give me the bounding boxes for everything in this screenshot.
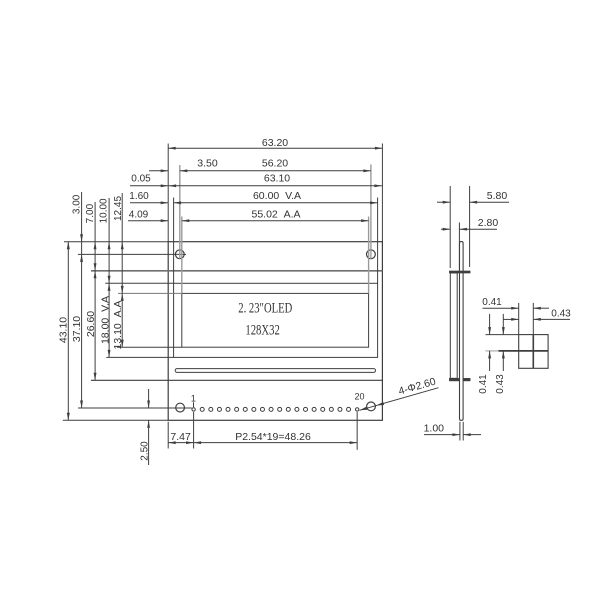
svg-text:1: 1 — [191, 393, 196, 403]
svg-text:5.80: 5.80 — [487, 190, 508, 202]
svg-text:0.05: 0.05 — [131, 174, 151, 185]
centerline through bottom-left hole — [78, 407, 192, 409]
side view top polarizer cap — [449, 271, 470, 273]
dimension 0.43 cell pitch — [503, 318, 519, 320]
svg-text:43.10: 43.10 — [58, 317, 70, 343]
svg-text:60.00 V.A: 60.00 V.A — [253, 190, 301, 202]
dimension 0.41 cell height line — [489, 314, 491, 335]
pixel detail top edge extension left — [486, 334, 519, 336]
extension line A.A right above — [368, 217, 370, 294]
svg-text:63.20: 63.20 — [262, 137, 288, 149]
svg-text:55.02 A.A: 55.02 A.A — [251, 209, 300, 221]
svg-text:128X32: 128X32 — [245, 323, 280, 339]
extension line PCB right edge above — [381, 144, 383, 242]
extension PCB top edge left — [64, 241, 168, 243]
extension pin 20 below — [356, 412, 358, 450]
svg-text:4.09: 4.09 — [129, 210, 149, 221]
dimension 3.50 hole offset — [149, 170, 168, 172]
pin 1 leader tick — [193, 402, 195, 407]
dimension 0.43 cell vertical pitch line — [502, 314, 504, 335]
glass top edge (with left extension) — [91, 270, 382, 272]
mounting hole bottom-left — [176, 403, 185, 412]
viewing area V.A rectangle 60.00 x 18.00 — [174, 283, 378, 357]
svg-text:0.43: 0.43 — [551, 309, 571, 320]
svg-text:18.00 V.A: 18.00 V.A — [99, 296, 111, 344]
svg-text:12.45: 12.45 — [113, 196, 124, 221]
svg-text:2. 23″OLED: 2. 23″OLED — [238, 301, 292, 317]
dimension 1.60 V.A offset — [130, 202, 168, 204]
extension above cell left — [518, 303, 520, 335]
dimension 3.00 / 37.10 vertical line — [81, 192, 83, 408]
svg-text:2.50: 2.50 — [139, 441, 150, 461]
extension 5.80 right — [469, 186, 471, 267]
svg-text:10.00: 10.00 — [99, 198, 110, 223]
pixel detail horizontal divider — [499, 350, 549, 352]
svg-text:P2.54*19=48.26: P2.54*19=48.26 — [235, 431, 311, 443]
svg-text:2.80: 2.80 — [478, 217, 499, 229]
dimension 60.00 V.A width — [174, 202, 378, 204]
pixel detail horizontal divider thin extension — [486, 350, 499, 352]
extension line A.A left above — [181, 217, 183, 294]
svg-text:3.00: 3.00 — [72, 194, 83, 214]
extension 1.00 right — [462, 422, 464, 441]
svg-text:1.60: 1.60 — [129, 191, 149, 202]
dimension 2.80 glass+pcb thickness — [441, 228, 450, 230]
centerline through top-right hole / 56.20 extension — [370, 165, 372, 259]
pixel detail vertical divider — [532, 335, 534, 369]
dimension 10.00 / 18.00 V.A vertical line — [108, 198, 110, 357]
active area A.A rectangle 55.02 x 13.10 — [182, 293, 369, 347]
extension line V.A right above — [377, 198, 379, 284]
side view PCB bar — [460, 242, 464, 421]
svg-text:0.43: 0.43 — [495, 374, 506, 394]
dimension 55.02 A.A width — [182, 220, 369, 222]
svg-text:13.10 A.A: 13.10 A.A — [112, 300, 124, 349]
V.A bottom edge left extension — [106, 356, 173, 358]
mounting hole top-right — [367, 250, 376, 259]
extension above cell divider — [532, 303, 534, 335]
extension line V.A left above — [173, 198, 175, 284]
svg-text:37.10: 37.10 — [71, 316, 83, 342]
pixel detail 2x2 cell square — [519, 335, 548, 369]
extension PCB bottom edge left — [63, 419, 168, 421]
V.A top edge left extension — [105, 282, 173, 284]
svg-text:7.00: 7.00 — [85, 203, 96, 223]
pin row: 20 connector pins — [192, 408, 195, 411]
extension 1.00 left — [459, 422, 461, 441]
extension line left hole center vertical — [179, 165, 181, 259]
dimension P2.54*19=48.26 pin pitch — [194, 442, 358, 444]
A.A top edge left extension — [118, 292, 182, 294]
dimension 12.45 / 13.10 A.A vertical line — [121, 193, 123, 347]
extension PCB left edge below — [167, 422, 169, 449]
dimension 56.20 hole to hole — [180, 170, 371, 172]
svg-text:56.20: 56.20 — [262, 158, 288, 170]
dimension 7.00 / 26.60 vertical line — [94, 202, 96, 380]
extension 2.80 right — [458, 223, 460, 272]
svg-text:3.50: 3.50 — [197, 158, 218, 170]
svg-text:0.41: 0.41 — [482, 297, 502, 308]
front view: PCB outline 63.20 x 43.10 — [168, 242, 382, 421]
mounting hole top-left — [175, 250, 184, 259]
dimension 1.00 pcb thickness — [424, 434, 460, 436]
leader 4-phi2.60 mounting holes — [360, 388, 439, 411]
dimension 0.05 glass offset — [130, 185, 168, 187]
dimension 63.20 overall width — [168, 147, 382, 149]
dimension 5.80 total thickness — [437, 201, 450, 203]
side view bottom polarizer cap — [449, 378, 470, 381]
dimension 2.50 hole to bottom edge — [148, 389, 150, 408]
svg-text:63.10: 63.10 — [264, 173, 290, 185]
svg-text:0.41: 0.41 — [478, 374, 489, 394]
svg-text:20: 20 — [354, 391, 364, 401]
FPC slot — [175, 369, 375, 373]
side view glass slab — [450, 273, 457, 378]
dimension 4.09 A.A offset — [128, 220, 168, 222]
dimension 7.47 edge to pin 1 — [168, 442, 193, 444]
extension pin 1 below — [193, 412, 195, 449]
svg-text:26.60: 26.60 — [85, 311, 97, 337]
glass bottom edge (with left extension) — [91, 379, 382, 381]
centerline through top-left hole — [78, 253, 186, 255]
svg-text:1.00: 1.00 — [424, 422, 445, 434]
extension 5.80 left — [449, 186, 451, 268]
extension line PCB left edge above — [167, 144, 169, 242]
dimension 63.10 glass width — [169, 185, 382, 187]
mounting hole bottom-right — [367, 402, 376, 411]
dimension 43.10 overall height — [67, 242, 69, 421]
A.A bottom edge left extension — [117, 346, 182, 348]
svg-text:7.47: 7.47 — [170, 431, 191, 443]
dimension 0.41 cell width — [483, 307, 519, 309]
